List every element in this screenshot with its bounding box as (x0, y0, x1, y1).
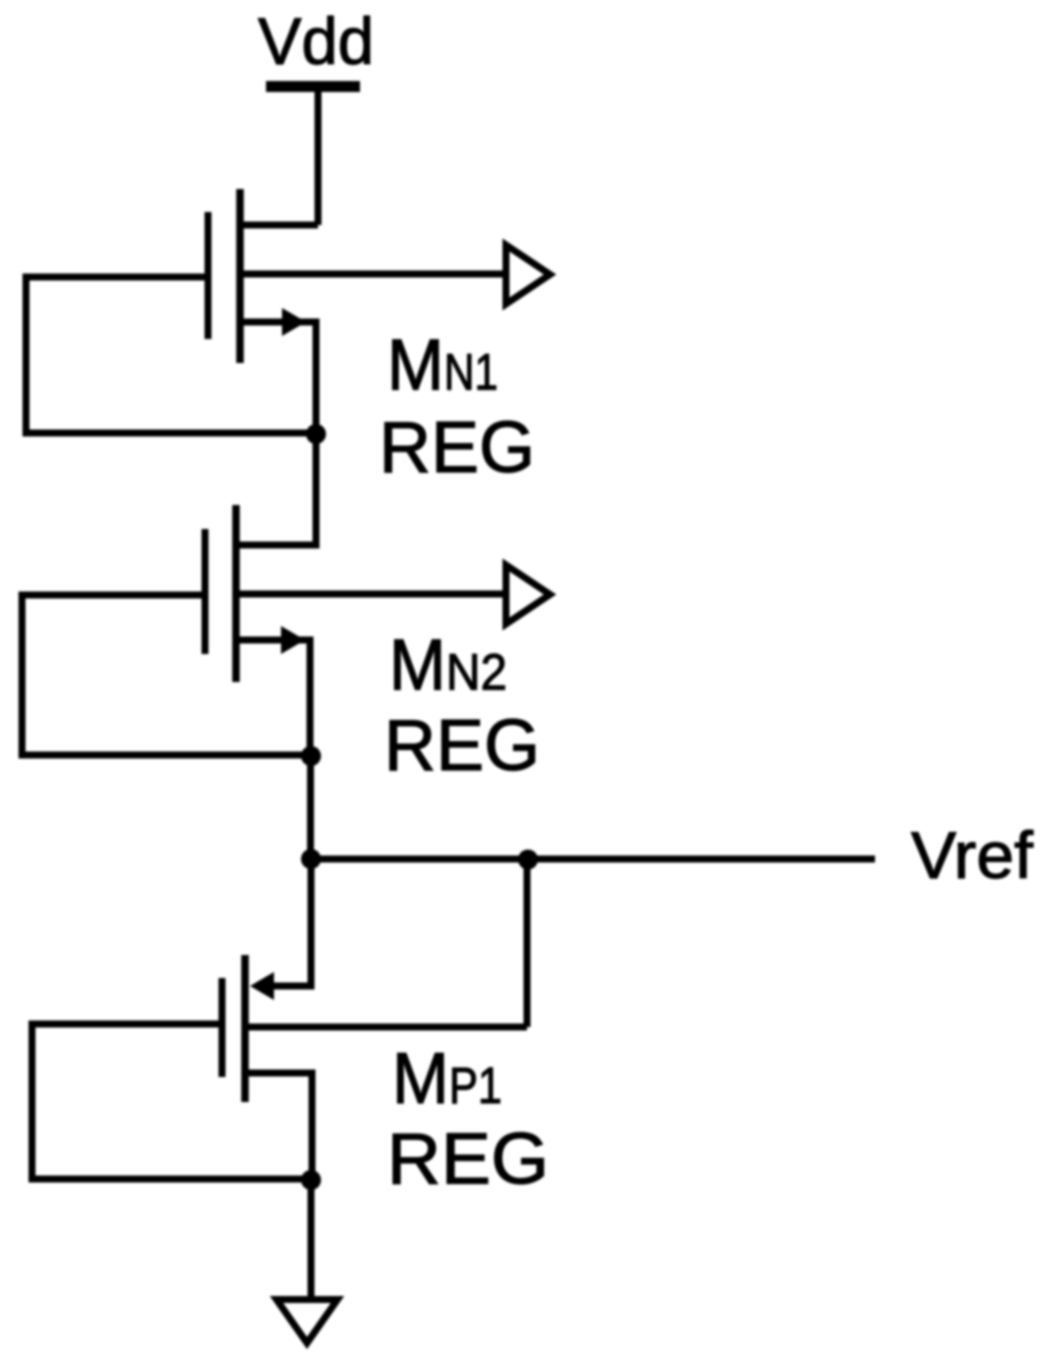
transistor MN1 channel bar (236, 189, 244, 363)
wire Vref right node to MP1 bulk (524, 860, 531, 1027)
transistor MN2 gate bar (202, 529, 209, 654)
svg-text:MN1: MN1 (387, 326, 498, 406)
svg-text:REG: REG (384, 706, 540, 786)
wire MN1 source node to MN2 drain (236, 434, 316, 545)
wire MN2 gate feedback loop (22, 595, 306, 755)
transistor MP1 source lead (245, 1073, 312, 1180)
transistor MN2 bulk lead (236, 591, 505, 598)
transistor MN2 source arrowhead (281, 626, 305, 654)
transistor MP1 channel bar (241, 955, 249, 1102)
transistor MN2 source lead (236, 640, 310, 756)
wire Vdd to MN1 drain (315, 89, 322, 225)
transistor MP1 bulk lead (245, 1024, 527, 1031)
transistor MN1 bulk lead (240, 271, 505, 278)
wire Vref node to MP1 drain (274, 859, 311, 986)
transistor MN2 channel bar (232, 505, 240, 682)
junction dot MN2 source node (301, 746, 321, 766)
svg-text:REG: REG (387, 1120, 549, 1200)
svg-text:MP1: MP1 (392, 1039, 502, 1119)
ground symbol (277, 1300, 338, 1344)
power symbol Vdd bar (266, 81, 360, 92)
wire MN1 gate feedback loop (26, 277, 312, 433)
output arrow MN1 (open triangle) (506, 245, 550, 304)
transistor MN1 drain lead (240, 222, 318, 229)
junction dot Vref node right (518, 850, 538, 870)
wire MP1 gate feedback loop (32, 1024, 308, 1179)
junction dot MN1 source node (306, 424, 326, 444)
svg-text:MN2: MN2 (389, 626, 507, 706)
svg-text:Vref: Vref (911, 818, 1034, 892)
transistor MN1 source lead (240, 322, 316, 434)
wire Vref output (311, 856, 875, 863)
wire MN2 source node to Vref node (307, 756, 314, 859)
junction dot Vref node left (301, 849, 321, 869)
transistor MN1 gate bar (205, 212, 212, 339)
junction dot MP1 source node (301, 1170, 321, 1190)
svg-text:Vdd: Vdd (258, 4, 374, 78)
wire MP1 source node to ground (308, 1180, 315, 1299)
transistor MN1 source arrowhead (282, 308, 306, 336)
svg-text:REG: REG (379, 408, 535, 488)
transistor MP1 gate bar (219, 978, 226, 1077)
output arrow MN2 (open triangle) (506, 565, 550, 624)
transistor MP1 drain arrowhead (points into channel) (250, 972, 274, 1000)
